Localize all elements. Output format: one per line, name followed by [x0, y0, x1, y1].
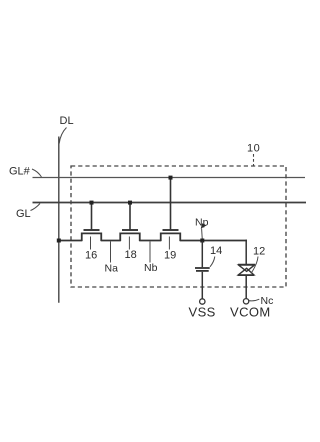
leader from label 18 — [128, 237, 130, 250]
transistor 18 gate wire from GL — [129, 203, 131, 231]
junction dot gate19 on GL# — [169, 176, 173, 180]
capacitor 14 bottom plate — [196, 270, 209, 272]
leader from label 12 to LC element — [251, 257, 258, 274]
svg-text:10: 10 — [247, 142, 260, 154]
wire corner from main wire down to LC element 12 — [245, 240, 247, 265]
transistor 19 gate bar — [163, 229, 179, 231]
leader node Na — [110, 242, 112, 263]
main wire segment T18 to T19 — [139, 240, 161, 242]
svg-text:GL#: GL# — [9, 166, 31, 178]
leader from label 10 to box (dashed) — [253, 154, 255, 166]
wire GL gate line — [33, 202, 307, 204]
capacitor 14 top plate — [195, 267, 210, 269]
leader from label 16 — [90, 237, 92, 250]
transistor 16 gate wire from GL — [91, 203, 93, 231]
leader from label 19 — [168, 237, 170, 250]
leader from GL# label to GL# line — [32, 169, 42, 177]
main wire (source/drain row) segment DL to T16 — [59, 240, 83, 242]
LC element 12 lower triangle — [238, 268, 254, 275]
transistor 19 channel bump — [161, 233, 181, 241]
svg-text:18: 18 — [125, 249, 137, 261]
LC element 12 bottom plate — [238, 274, 254, 276]
terminal circle VSS — [200, 299, 205, 304]
transistor 19 gate wire from GL# (crosses GL) — [170, 178, 172, 231]
leader node Nb — [149, 242, 151, 263]
wire from LC element 12 to VCOM terminal — [245, 275, 247, 299]
boundary box 10 (dashed pixel-region outline) — [71, 166, 286, 287]
junction dot gate16 on GL — [90, 201, 94, 205]
leader from Np arrowhead to node — [201, 229, 204, 240]
transistor 18 channel bump — [120, 233, 140, 241]
leader from DL label to DL line — [59, 128, 66, 144]
svg-text:Nc: Nc — [261, 295, 274, 307]
wire GL# gate line — [33, 177, 306, 179]
svg-text:16: 16 — [85, 249, 97, 261]
svg-text:19: 19 — [164, 250, 176, 262]
leader from label 14 to capacitor — [210, 257, 215, 267]
LC element 12 upper triangle — [239, 265, 255, 271]
leader from VCOM terminal to label Nc — [249, 299, 259, 301]
svg-text:VSS: VSS — [189, 305, 216, 320]
main wire segment T19 to corner at LC branch — [180, 240, 247, 242]
junction dot at DL / main wire — [57, 239, 61, 243]
transistor 16 gate bar — [84, 229, 100, 231]
LC element 12 top plate — [238, 264, 255, 266]
svg-text:DL: DL — [60, 115, 74, 127]
wire from capacitor 14 to VSS terminal — [201, 272, 203, 299]
svg-text:Nb: Nb — [144, 262, 158, 274]
terminal circle VCOM — [243, 299, 248, 304]
transistor 16 channel bump — [82, 233, 102, 241]
svg-text:GL: GL — [16, 208, 31, 220]
junction dot node Np on main wire — [200, 239, 204, 243]
svg-text:12: 12 — [253, 246, 265, 258]
transistor 18 gate bar — [122, 229, 138, 231]
junction dot gate18 on GL — [128, 201, 132, 205]
main wire segment T16 to T18 — [101, 240, 121, 242]
wire from node Np down to capacitor 14 — [201, 241, 203, 267]
svg-text:Na: Na — [105, 262, 119, 274]
wire DL data line (vertical) — [58, 137, 60, 303]
svg-text:14: 14 — [210, 245, 222, 257]
leader from GL label to GL line — [31, 204, 41, 211]
arrowhead of Np pointer — [201, 223, 207, 229]
